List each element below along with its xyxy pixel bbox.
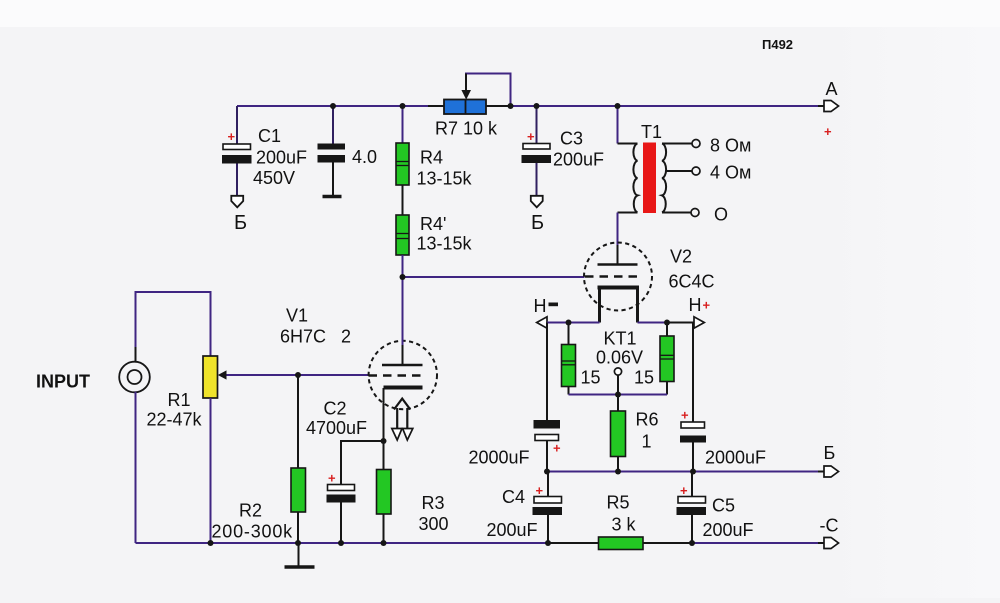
svg-text:V1: V1 [286, 306, 308, 326]
svg-text:13-15k: 13-15k [417, 169, 473, 189]
svg-text:+: + [536, 483, 544, 498]
potentiometer R1 [147, 356, 218, 430]
svg-text:450V: 450V [253, 168, 295, 188]
wire T1 to V2 plate [617, 213, 619, 246]
svg-text:C2: C2 [324, 399, 347, 419]
wiper wire to V1 grid [226, 374, 369, 376]
svg-text:2000uF: 2000uF [469, 448, 530, 468]
ground under 4.0 [323, 195, 342, 199]
capacitor 2000uF right [680, 323, 766, 472]
capacitor C4 [487, 472, 563, 544]
resistor R4' [396, 214, 473, 255]
svg-text:6H7C: 6H7C [280, 327, 326, 347]
svg-text:4 Ом: 4 Ом [710, 163, 751, 183]
svg-text:13-15k: 13-15k [417, 234, 473, 254]
svg-text:R3: R3 [422, 493, 445, 513]
svg-text:8 Ом: 8 Ом [710, 136, 751, 156]
svg-text:R4: R4 [420, 148, 443, 168]
svg-text:+: + [553, 441, 561, 456]
svg-text:П492: П492 [762, 37, 793, 52]
svg-text:О: О [714, 205, 728, 225]
svg-text:R7 10 k: R7 10 k [435, 119, 498, 139]
svg-text:T1: T1 [641, 122, 662, 142]
resistor R2 [212, 375, 306, 543]
wire bus to T1 [617, 106, 619, 144]
svg-text:+: + [681, 408, 689, 423]
svg-text:V2: V2 [670, 247, 692, 267]
wire bottom rail [136, 542, 549, 544]
KT1 labels and node [596, 329, 643, 395]
capacitor C2 [306, 399, 384, 544]
wire R4' to node [402, 255, 404, 277]
resistor R7 [435, 100, 498, 139]
wire R4 to R4' [402, 185, 404, 215]
svg-text:C3: C3 [560, 129, 583, 149]
svg-text:INPUT: INPUT [36, 372, 90, 392]
svg-text:2: 2 [341, 327, 351, 347]
terminal -C [818, 516, 839, 549]
resistor R5 [548, 493, 692, 550]
svg-text:200uF: 200uF [703, 520, 754, 540]
svg-text:4.0: 4.0 [352, 147, 377, 167]
svg-text:R2: R2 [239, 501, 262, 521]
capacitor C3 [522, 106, 605, 196]
node wire V1 plate to V2 grid [403, 276, 585, 278]
svg-text:R1: R1 [168, 390, 191, 410]
terminal Б under C1 [231, 196, 247, 234]
svg-text:+: + [680, 483, 688, 498]
wire top B+ bus [237, 105, 818, 107]
svg-text:15: 15 [581, 368, 601, 388]
svg-text:H: H [534, 296, 547, 316]
wire R1 to bottom rail [210, 398, 212, 543]
svg-text:200uF: 200uF [256, 148, 307, 168]
terminal H+ [689, 295, 711, 328]
wiper arrow into R7 [461, 90, 471, 100]
svg-text:22-47k: 22-47k [147, 410, 203, 430]
tube V2 6C4C [584, 243, 715, 323]
svg-text:1: 1 [642, 432, 652, 452]
svg-text:-С: -С [820, 516, 839, 536]
svg-text:+: + [527, 129, 535, 144]
tube V1 6H7C [280, 277, 437, 409]
transformer T1 [618, 122, 752, 225]
svg-text:+: + [228, 129, 236, 144]
svg-text:+: + [703, 298, 711, 313]
svg-text:KT1: KT1 [604, 329, 637, 349]
capacitor 4.0 [318, 106, 378, 196]
terminal A [818, 79, 839, 139]
resistor R4 [396, 106, 473, 189]
resistor R6 [611, 395, 659, 472]
svg-text:300: 300 [419, 514, 449, 534]
input jack [119, 347, 150, 405]
wire H- rail [547, 322, 600, 324]
svg-text:4700uF: 4700uF [306, 418, 367, 438]
svg-text:R6: R6 [636, 410, 659, 430]
svg-text:2000uF: 2000uF [705, 448, 766, 468]
svg-text:3 k: 3 k [612, 515, 637, 535]
wire V1 cathode down [383, 388, 385, 441]
svg-text:C1: C1 [258, 126, 281, 146]
ground main [285, 543, 315, 567]
terminal Б output [818, 443, 839, 477]
terminal H- [534, 296, 559, 328]
svg-text:200uF: 200uF [487, 520, 538, 540]
wire KT1 bottom loop [569, 394, 668, 396]
svg-text:A: A [826, 79, 838, 99]
resistor R3 [377, 441, 449, 543]
svg-text:Б: Б [824, 443, 836, 463]
wire R7 wiper loop [466, 74, 511, 107]
capacitor 2000uF left [469, 323, 562, 472]
wire R7 right segment [486, 105, 512, 107]
wire R7 left segment [428, 105, 445, 107]
svg-text:15: 15 [634, 368, 654, 388]
capacitor C1 [222, 106, 307, 196]
resistor 15 left [562, 323, 601, 395]
svg-text:+: + [328, 471, 336, 486]
svg-text:Б: Б [234, 212, 247, 234]
svg-text:200uF: 200uF [553, 150, 604, 170]
svg-text:Б: Б [531, 212, 544, 234]
svg-text:H: H [689, 295, 702, 315]
wire H+ rail [638, 322, 695, 324]
svg-text:R5: R5 [607, 493, 630, 513]
svg-text:R4': R4' [420, 214, 446, 234]
svg-text:200-300k: 200-300k [212, 522, 294, 542]
svg-text:6C4C: 6C4C [669, 272, 715, 292]
V1 heater arrows [392, 399, 413, 440]
wire B rail [547, 471, 818, 473]
terminal Б under C3 [531, 196, 544, 234]
svg-text:C4: C4 [502, 487, 525, 507]
wire jack down to bottom rail [135, 392, 137, 543]
capacitor C5 [677, 472, 754, 544]
input loop wires [136, 292, 211, 362]
svg-text:C5: C5 [712, 496, 735, 516]
svg-text:+: + [824, 124, 832, 139]
resistor 15 right [634, 323, 674, 395]
wiper arrowhead [218, 370, 227, 379]
svg-text:0.06V: 0.06V [596, 348, 643, 368]
